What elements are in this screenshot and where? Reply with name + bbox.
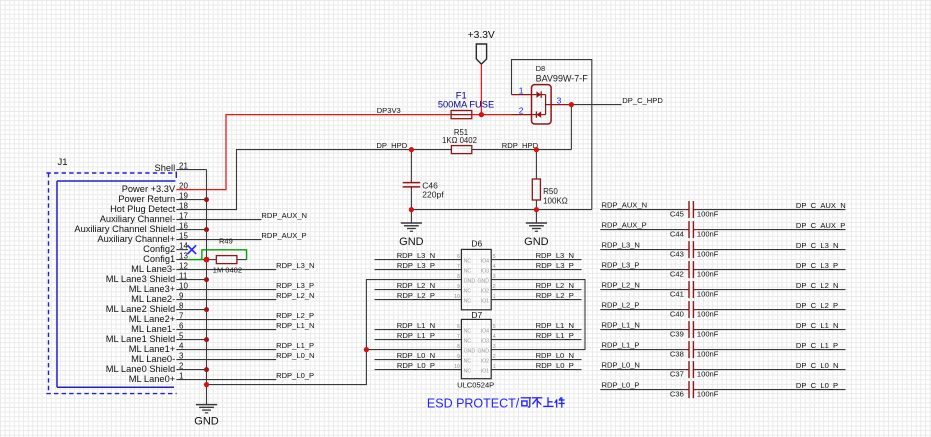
net label RDP_HPD	[502, 141, 539, 150]
value label 100nF (C44)	[697, 230, 719, 239]
svg-text:17: 17	[179, 212, 188, 221]
ground symbol under R50	[524, 210, 549, 249]
D8 internal bottom diode	[532, 111, 546, 117]
wire DP_C_L0_P out of C36	[693, 389, 845, 391]
value label 100nF (C39)	[697, 330, 719, 339]
svg-text:3: 3	[179, 352, 184, 361]
svg-text:100nF: 100nF	[697, 230, 719, 239]
svg-text:GND: GND	[464, 279, 476, 285]
svg-text:RDP_L3_P: RDP_L3_P	[397, 261, 435, 270]
svg-text:RDP_L3_P: RDP_L3_P	[602, 261, 640, 270]
svg-text:IO1: IO1	[481, 369, 489, 375]
J1 pin 17 number	[179, 212, 188, 221]
net label RDP_AUX_N	[261, 211, 307, 220]
svg-text:5: 5	[493, 324, 496, 330]
wire RDP_L0_P to D7 pin 10	[375, 369, 462, 371]
label C43	[670, 250, 684, 259]
wire DP_C_HPD	[571, 104, 621, 106]
svg-text:DP3V3: DP3V3	[377, 106, 401, 115]
junction +3.3V / F1	[479, 112, 484, 117]
svg-text:NC: NC	[464, 369, 472, 375]
label C46	[422, 180, 438, 190]
junction on GND bus at pin 11	[204, 277, 209, 282]
svg-text:DP_C_L1_N: DP_C_L1_N	[796, 321, 839, 330]
svg-text:GND: GND	[194, 416, 219, 428]
J1 pin 8 ML Lane2 Shield stub	[176, 309, 206, 311]
J1 pin 15 name label	[97, 234, 175, 244]
wire RDP_L1_P to D7 pin 7	[375, 339, 462, 341]
net label RDP_L2_P (left of D6)	[397, 291, 435, 300]
svg-text:5: 5	[179, 332, 184, 341]
svg-text:RDP_L3_N: RDP_L3_N	[536, 251, 574, 260]
resistor R50 body	[532, 150, 540, 210]
svg-text:1: 1	[493, 294, 496, 300]
wire RDP_L0_N into C37	[600, 369, 689, 371]
J1 pin 3 number	[179, 352, 184, 361]
svg-text:DP_C_L3_P: DP_C_L3_P	[796, 261, 838, 270]
svg-text:Config1: Config1	[143, 254, 175, 264]
svg-text:ML Lane3-: ML Lane3-	[131, 264, 175, 274]
svg-text:100nF: 100nF	[697, 390, 719, 399]
svg-text:NC: NC	[464, 299, 472, 305]
D7 pin number 3	[493, 344, 496, 350]
wire RDP_L1_N into C39	[600, 329, 689, 331]
wire DP_C_L0_N out of C37	[693, 369, 845, 371]
D6 pin name IO3	[481, 269, 489, 275]
D7 pin number 6	[457, 324, 460, 330]
svg-text:100nF: 100nF	[697, 310, 719, 319]
svg-text:RDP_L0_P: RDP_L0_P	[602, 381, 640, 390]
J1 pin 14 Config2 stub	[176, 249, 188, 251]
svg-text:1KΩ 0402: 1KΩ 0402	[442, 136, 477, 145]
J1 pin 6 ML Lane1- stub	[176, 329, 206, 331]
value label BAV99W-7-F	[536, 73, 589, 83]
svg-text:7: 7	[179, 312, 184, 321]
D6 pin number 5	[493, 254, 496, 260]
svg-text:C39: C39	[670, 330, 684, 339]
D8 pin 1 stub	[512, 94, 532, 96]
svg-text:DP_C_AUX_P: DP_C_AUX_P	[796, 221, 845, 230]
svg-text:IO1: IO1	[481, 299, 489, 305]
svg-text:Power +3.3V: Power +3.3V	[122, 184, 176, 194]
net label RDP_L2_P (cap bank)	[602, 301, 640, 310]
svg-text:RDP_L0_N: RDP_L0_N	[536, 351, 574, 360]
svg-text:ML Lane0-: ML Lane0-	[131, 354, 175, 364]
label C36	[670, 390, 684, 399]
J1 pin 1 number	[179, 372, 184, 381]
label C45	[670, 210, 684, 219]
svg-text:NC: NC	[464, 259, 472, 265]
net label RDP_L2_N (cap bank)	[602, 281, 640, 290]
junction R49 / pin 13 on GND bus	[204, 257, 210, 263]
IC D6 ULC0524P body	[461, 249, 491, 309]
net label RDP_AUX_N (cap bank)	[602, 201, 648, 210]
svg-text:100KΩ: 100KΩ	[543, 196, 568, 205]
svg-text:19: 19	[179, 192, 188, 201]
value label 100nF (C42)	[697, 270, 719, 279]
label C42	[670, 270, 684, 279]
J1 pin 10 ML Lane3+ stub	[176, 289, 206, 291]
svg-text:3: 3	[493, 274, 496, 280]
label C41	[670, 290, 684, 299]
D8 pin 3 stub	[551, 104, 571, 106]
svg-text:RDP_L2_P: RDP_L2_P	[276, 311, 314, 320]
net label RDP_L0_P (right of D7)	[536, 361, 574, 370]
J1 pin 16 name label	[74, 224, 175, 234]
svg-text:RDP_L2_N: RDP_L2_N	[397, 281, 435, 290]
D7 pin number 1	[493, 364, 496, 370]
junction on GND bus at pin 19	[204, 197, 209, 202]
svg-text:C42: C42	[670, 270, 684, 279]
svg-text:RDP_L2_P: RDP_L2_P	[536, 291, 574, 300]
svg-text:NC: NC	[464, 329, 472, 335]
net label RDP_AUX_P (cap bank)	[602, 221, 647, 230]
svg-text:IO2: IO2	[481, 359, 489, 365]
wire DP_C_AUX_P out of C44	[693, 229, 845, 231]
D6 pin number 3	[493, 274, 496, 280]
net label DP_C_L2_P	[796, 301, 838, 310]
J1 pin 4 ML Lane1+ stub	[176, 349, 206, 351]
J1 pin 18 name label	[110, 204, 176, 214]
J1 pin 12 name label	[131, 264, 175, 274]
net label RDP_L0_N (left of D7)	[397, 351, 435, 360]
svg-text:100nF: 100nF	[697, 270, 719, 279]
svg-text:D7: D7	[471, 310, 482, 320]
net label DP_C_L3_P	[796, 261, 838, 270]
net label DP_C_L1_P	[796, 341, 838, 350]
D6 pin number 8	[457, 274, 460, 280]
D6 pin name NC	[464, 299, 472, 305]
net label DP_HPD	[376, 141, 407, 150]
wire +3.3V down to fuse node	[480, 64, 482, 114]
J1 pin 5 number	[179, 332, 184, 341]
label C37	[670, 370, 684, 379]
svg-text:2: 2	[493, 284, 496, 290]
J1 pin 5 name label	[106, 334, 175, 344]
svg-text:1: 1	[493, 364, 496, 370]
svg-text:DP_C_L0_P: DP_C_L0_P	[796, 381, 838, 390]
svg-text:DP_HPD: DP_HPD	[376, 141, 407, 150]
J1 pin 19 name label	[118, 194, 175, 204]
net label DP_C_AUX_N	[796, 201, 846, 210]
svg-text:C41: C41	[670, 290, 684, 299]
wire RDP_L0_N from D7 pin 2	[491, 359, 581, 361]
D6 pin number 7	[457, 264, 460, 270]
J1 pin 15 number	[179, 232, 188, 241]
net label RDP_L3_N (right of D6)	[536, 251, 574, 260]
net label RDP_L1_P (cap bank)	[602, 341, 640, 350]
label R50	[543, 187, 558, 196]
J1 pin 8 number	[179, 302, 184, 311]
svg-text:GND: GND	[464, 349, 476, 355]
value label 1KΩ 0402	[442, 136, 477, 145]
D7 pin name IO2	[481, 359, 489, 365]
svg-text:RDP_L0_N: RDP_L0_N	[397, 351, 435, 360]
svg-text:ML Lane3+: ML Lane3+	[129, 284, 175, 294]
net label DP_C_L2_N	[796, 281, 839, 290]
svg-text:500MA FUSE: 500MA FUSE	[438, 100, 494, 110]
wire RDP_L3_P to D6 pin 7	[375, 269, 462, 271]
svg-text:Hot Plug Detect: Hot Plug Detect	[110, 204, 176, 214]
svg-text:3: 3	[557, 95, 562, 105]
svg-text:BAV99W-7-F: BAV99W-7-F	[536, 73, 589, 83]
svg-text:9: 9	[179, 292, 184, 301]
wire DP_C_AUX_N out of C45	[693, 209, 845, 211]
D7 pin number 10	[454, 364, 460, 370]
svg-text:RDP_L0_N: RDP_L0_N	[602, 361, 640, 370]
svg-text:R49: R49	[219, 237, 233, 246]
svg-text:NC: NC	[464, 289, 472, 295]
svg-text:DP_C_L2_P: DP_C_L2_P	[796, 301, 838, 310]
net label DP_C_L3_N	[796, 241, 839, 250]
net label RDP_L0_N (right of D7)	[536, 351, 574, 360]
svg-text:ML Lane2-: ML Lane2-	[131, 294, 175, 304]
capacitor C46	[403, 150, 421, 210]
svg-text:RDP_L3_P: RDP_L3_P	[276, 281, 314, 290]
svg-text:RDP_L2_N: RDP_L2_N	[602, 281, 640, 290]
svg-text:6: 6	[457, 254, 460, 260]
net label RDP_L2_N (right of D6)	[536, 281, 574, 290]
connector J1 solid body bracket	[57, 181, 175, 387]
D6 pin name NC	[464, 289, 472, 295]
D8 pin number 3	[557, 95, 562, 105]
svg-text:ML Lane1 Shield: ML Lane1 Shield	[106, 334, 175, 344]
capacitor C42	[689, 261, 693, 278]
GND rail wire	[411, 209, 591, 211]
wire red F1 to D8 pin 2	[472, 114, 512, 116]
J1 pin 19 number	[179, 192, 188, 201]
J1 pin 18 Hot Plug Detect stub	[176, 209, 206, 211]
D7 pin name IO4	[481, 329, 489, 335]
wire RDP_L0_P from D7 pin 1	[491, 369, 581, 371]
svg-text:RDP_L0_N: RDP_L0_N	[276, 351, 314, 360]
J1 pin 9 ML Lane2- stub	[176, 299, 206, 301]
svg-text:1M 0402: 1M 0402	[213, 266, 242, 275]
label +3.3V	[468, 30, 495, 41]
svg-text:4: 4	[179, 342, 184, 351]
wire RDP_AUX_P into C44	[600, 229, 689, 231]
value label 100KΩ	[543, 196, 568, 205]
svg-text:+3.3V: +3.3V	[468, 30, 495, 41]
svg-text:10: 10	[454, 294, 460, 300]
value label ULC0524P	[457, 380, 494, 389]
wire DP_C_L3_N out of C43	[693, 249, 845, 251]
net label DP_C_L0_P	[796, 381, 838, 390]
J1 pin 7 name label	[129, 314, 175, 324]
label C40	[670, 310, 684, 319]
svg-text:C37: C37	[670, 370, 684, 379]
ground symbol under J1	[194, 405, 219, 428]
svg-text:20: 20	[179, 182, 188, 191]
D7 pin name NC	[464, 339, 472, 345]
wire RDP_HPD up to D8 pin3 node	[570, 105, 572, 150]
IC D7 ULC0524P body	[461, 319, 491, 378]
value label 100nF (C36)	[697, 390, 719, 399]
svg-text:DP_C_L1_P: DP_C_L1_P	[796, 341, 838, 350]
wire RDP_L1_P from J1 pin 4	[207, 349, 277, 351]
D7 pin name NC	[464, 369, 472, 375]
svg-text:8: 8	[457, 274, 460, 280]
svg-text:GND: GND	[477, 349, 489, 355]
net label RDP_L3_N (left of D6)	[397, 251, 435, 260]
svg-text:DP_C_L0_N: DP_C_L0_N	[796, 361, 839, 370]
value label 100nF (C40)	[697, 310, 719, 319]
svg-text:4: 4	[493, 264, 496, 270]
J1 pin 10 name label	[129, 284, 175, 294]
svg-text:GND: GND	[399, 236, 424, 248]
svg-text:RDP_AUX_N: RDP_AUX_N	[261, 211, 307, 220]
wire RDP_L1_P into C38	[600, 349, 689, 351]
wire RDP_L3_P into C42	[600, 269, 689, 271]
svg-text:100nF: 100nF	[697, 350, 719, 359]
J1 pin 4 name label	[129, 344, 175, 354]
svg-text:IO3: IO3	[481, 269, 489, 275]
net label DP3V3	[377, 106, 401, 115]
D7 pin number 8	[457, 344, 460, 350]
J1 pin 10 number	[179, 282, 188, 291]
net label RDP_L3_N	[276, 261, 314, 270]
svg-text:12: 12	[179, 262, 188, 271]
value label 500MA FUSE	[438, 100, 494, 110]
wire RDP_L1_N from J1 pin 6	[207, 329, 277, 331]
J1 pin 6 number	[179, 322, 184, 331]
J1 pin 21 Shell stub	[176, 169, 206, 171]
wire DP_C_L3_P out of C42	[693, 269, 845, 271]
svg-text:RDP_HPD: RDP_HPD	[502, 141, 539, 150]
svg-text:IO3: IO3	[481, 339, 489, 345]
svg-text:RDP_L0_P: RDP_L0_P	[397, 361, 435, 370]
J1 pin 11 name label	[106, 274, 175, 284]
svg-text:ULC0524P: ULC0524P	[457, 380, 494, 389]
svg-text:8: 8	[457, 344, 460, 350]
J1 pin 12 ML Lane3- stub	[176, 269, 206, 271]
wire DP_C_L1_P out of C38	[693, 349, 845, 351]
svg-text:J1: J1	[58, 157, 68, 168]
junction on GND bus at pin 2	[204, 367, 209, 372]
net label RDP_L3_P (right of D6)	[536, 261, 574, 270]
D7 pin number 5	[493, 324, 496, 330]
svg-text:NC: NC	[464, 339, 472, 345]
net label RDP_L1_P (right of D7)	[536, 331, 574, 340]
J1 pin 12 number	[179, 262, 188, 271]
svg-text:RDP_L2_P: RDP_L2_P	[397, 291, 435, 300]
wire RDP_AUX_P from J1 pin 15	[207, 239, 262, 241]
wire DP_C_L2_P out of C40	[693, 309, 845, 311]
wire RDP_L2_N from D6 pin 2	[491, 289, 581, 291]
J1 pin 7 number	[179, 312, 184, 321]
net label RDP_L1_P	[276, 341, 314, 350]
wire RDP_L0_N from J1 pin 3	[207, 359, 277, 361]
D7 pin number 2	[493, 354, 496, 360]
net label RDP_L3_P (left of D6)	[397, 261, 435, 270]
svg-text:6: 6	[457, 324, 460, 330]
net label RDP_L2_N	[276, 291, 314, 300]
svg-text:RDP_L2_N: RDP_L2_N	[276, 291, 314, 300]
value label 220pf	[422, 189, 444, 199]
svg-text:RDP_L0_P: RDP_L0_P	[536, 361, 574, 370]
value label 1M 0402	[213, 266, 242, 275]
capacitor C41	[689, 281, 693, 298]
svg-text:RDP_L2_N: RDP_L2_N	[536, 281, 574, 290]
svg-text:ML Lane1+: ML Lane1+	[129, 344, 175, 354]
wire RDP_HPD right of R51	[472, 149, 572, 151]
D7 pin number 7	[457, 334, 460, 340]
svg-text:Auxiliary Channel-: Auxiliary Channel-	[100, 214, 175, 224]
J1 pin 14 name label	[143, 244, 175, 254]
ground symbol under C46	[399, 210, 424, 249]
svg-text:Auxiliary Channel+: Auxiliary Channel+	[97, 234, 175, 244]
wire DP_C_L2_N out of C41	[693, 289, 845, 291]
svg-text:IO2: IO2	[481, 289, 489, 295]
label D8	[536, 64, 546, 73]
wire RDP_L3_P from J1 pin 10	[207, 289, 277, 291]
net label RDP_L0_N (cap bank)	[602, 361, 640, 370]
svg-text:C43: C43	[670, 250, 684, 259]
wire RDP_L2_N to D6 pin 9	[375, 289, 462, 291]
J1 pin 21 number	[179, 162, 188, 171]
svg-text:RDP_AUX_P: RDP_AUX_P	[261, 231, 306, 240]
svg-text:C36: C36	[670, 390, 684, 399]
svg-text:DP_C_L3_N: DP_C_L3_N	[796, 241, 839, 250]
junction on GND bus at pin 16	[204, 227, 209, 232]
D7 pin name NC	[464, 329, 472, 335]
wire RDP_L2_N from J1 pin 9	[207, 299, 277, 301]
J1 pin 9 name label	[131, 294, 175, 304]
J1 pin 17 Auxiliary Channel- stub	[176, 219, 206, 221]
J1 pin 11 number	[179, 272, 188, 281]
svg-text:C44: C44	[670, 230, 684, 239]
svg-text:2: 2	[179, 362, 184, 371]
svg-text:7: 7	[457, 264, 460, 270]
net label RDP_L1_N (left of D7)	[397, 321, 435, 330]
D6 pin name IO1	[481, 299, 489, 305]
J1 pin 3 ML Lane0- stub	[176, 359, 206, 361]
D6 pin name GND	[477, 279, 489, 285]
J1 pin 19 Power Return stub	[176, 199, 206, 201]
svg-text:ML Lane3 Shield: ML Lane3 Shield	[106, 274, 175, 284]
svg-text:Shell: Shell	[155, 163, 176, 173]
svg-text:ESD PROTECT/: ESD PROTECT/	[427, 397, 520, 411]
J1 pin 6 name label	[131, 324, 175, 334]
wire RDP_L3_N into C43	[600, 249, 689, 251]
svg-text:C38: C38	[670, 350, 684, 359]
svg-text:RDP_L1_N: RDP_L1_N	[536, 321, 574, 330]
D8 pin 2 stub	[512, 114, 532, 116]
svg-text:ML Lane2 Shield: ML Lane2 Shield	[106, 304, 175, 314]
J1 pin 13 name label	[143, 254, 175, 264]
svg-text:ML Lane0 Shield: ML Lane0 Shield	[106, 364, 175, 374]
D6 pin number 10	[454, 294, 460, 300]
svg-text:NC: NC	[464, 359, 472, 365]
wire RDP_L1_N from D7 pin 5	[491, 329, 581, 331]
diode D8 body BAV99W	[532, 85, 552, 124]
wire GND feed from J1 bus to ESD array	[207, 280, 462, 385]
net label RDP_L1_P (left of D7)	[397, 331, 435, 340]
resistor R51 body	[451, 146, 471, 154]
capacitor C37	[689, 361, 693, 378]
value label 100nF (C45)	[697, 210, 719, 219]
svg-text:15: 15	[179, 232, 188, 241]
D6 pin name IO4	[481, 259, 489, 265]
net label DP_C_L0_N	[796, 361, 839, 370]
J1 pin 2 name label	[106, 364, 175, 374]
junction GND-feed on J1 bus	[204, 382, 209, 387]
wire RDP_L0_P from J1 pin 1	[207, 379, 277, 381]
svg-text:7: 7	[457, 334, 460, 340]
wire RDP_L2_N into C41	[600, 289, 689, 291]
svg-text:ML Lane0+: ML Lane0+	[129, 374, 175, 384]
svg-text:220pf: 220pf	[422, 189, 444, 199]
